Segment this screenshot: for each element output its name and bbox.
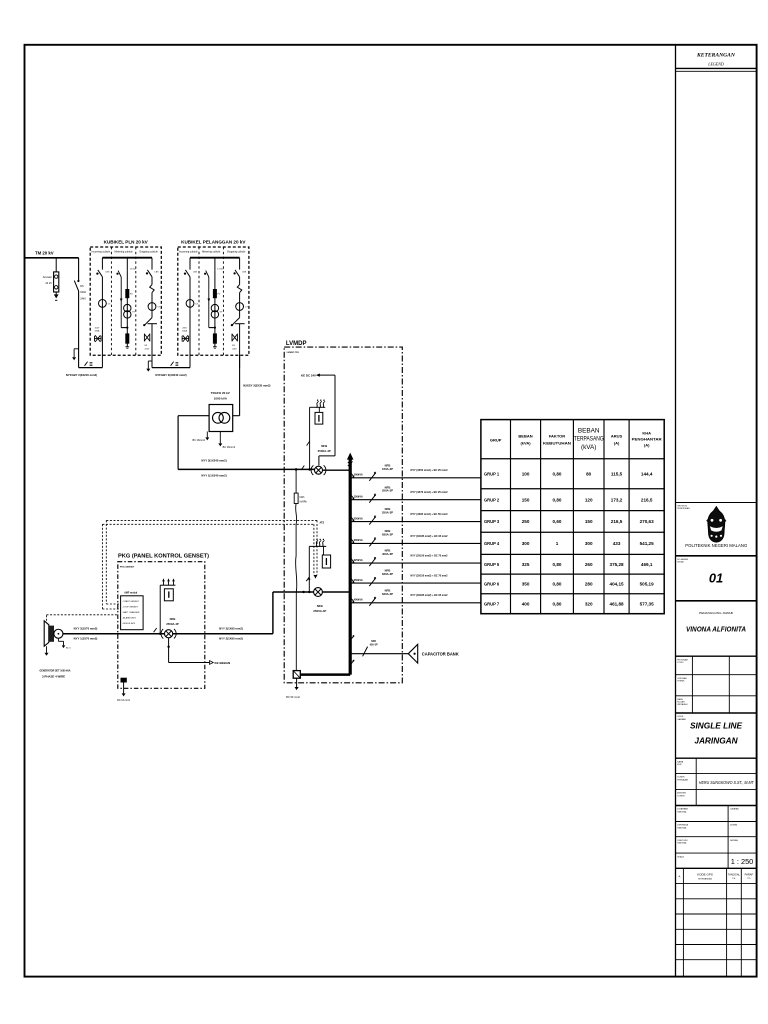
svg-text:630A-3P: 630A-3P <box>382 592 393 596</box>
svg-text:433: 433 <box>613 541 621 546</box>
svg-text:160A-3P: 160A-3P <box>382 467 393 471</box>
svg-text:kWh: kWh <box>300 496 305 499</box>
wire genset to PKG breaker <box>63 633 165 635</box>
svg-text:GRUP: GRUP <box>490 438 502 443</box>
load table: beban kelompok <box>481 420 664 614</box>
svg-text:TANGGAL: TANGGAL <box>677 810 687 813</box>
KUBIKEL PLN 20 kV: outgoing cable down <box>151 324 153 368</box>
svg-text:17,5kV: 17,5kV <box>217 269 224 271</box>
breaker NFB GRUP 3 <box>369 517 375 525</box>
svg-text:DIPERIKSA: DIPERIKSA <box>677 824 688 827</box>
svg-text:NYY 2(1X95 mm2): NYY 2(1X95 mm2) <box>219 627 243 631</box>
svg-text:CAPACITOR BANK: CAPACITOR BANK <box>422 651 459 656</box>
svg-text:150: 150 <box>585 519 593 524</box>
wire TM bus horizontal <box>25 257 79 259</box>
transformer ground 2 <box>219 432 221 444</box>
svg-text:1 : 250: 1 : 250 <box>731 857 754 866</box>
KUBIKEL PLN 20 kV: outgoing disconnect <box>145 318 152 325</box>
busbar LVMDP vertical <box>349 456 352 674</box>
svg-text:Incoming cubicle: Incoming cubicle <box>91 251 110 254</box>
svg-text:GRUP 6: GRUP 6 <box>484 582 500 587</box>
svg-text:TANGGAL: TANGGAL <box>728 873 741 877</box>
svg-text:GRUP 7: GRUP 7 <box>484 601 500 606</box>
KUBIKEL PELANGGAN 20 kV: outgoing LBS switch <box>239 258 241 270</box>
svg-text:AMF modul: AMF modul <box>124 592 137 595</box>
svg-text:VINONA ALFIONITA: VINONA ALFIONITA <box>686 627 746 634</box>
svg-text:N2XSY 2(3X35 mm2): N2XSY 2(3X35 mm2) <box>243 384 270 388</box>
svg-text:LBS: LBS <box>242 272 247 274</box>
svg-text:KULIAH: KULIAH <box>677 701 685 704</box>
svg-text:0,80: 0,80 <box>553 582 562 587</box>
PKG earth bar <box>121 678 127 682</box>
svg-text:0,80: 0,80 <box>553 562 562 567</box>
KUBIKEL PELANGGAN 20 kV: outgoing cable down <box>239 324 241 368</box>
breaker NFB GRUP 7 <box>369 598 375 606</box>
wire DC control loop <box>334 375 336 456</box>
feeder GRUP 4 from busbar <box>350 542 481 544</box>
svg-text:2500A-4P: 2500A-4P <box>166 622 179 626</box>
title block: institution logo POLITEKNIK NEGERI MALANG <box>676 502 757 504</box>
feeder GRUP 3 from busbar <box>350 521 481 523</box>
svg-text:Metering cubicle: Metering cubicle <box>114 251 133 254</box>
svg-text:630A: 630A <box>95 330 100 333</box>
KUBIKEL PLN 20 kV: outgoing CT <box>148 303 156 311</box>
svg-text:GRUP 3: GRUP 3 <box>484 519 500 524</box>
busbar bottom link and NGR <box>300 673 350 676</box>
ground at junction 2 <box>148 360 152 362</box>
svg-text:PENGHANTAR: PENGHANTAR <box>632 437 662 442</box>
svg-text:ATS: ATS <box>320 522 325 525</box>
svg-text:404,15: 404,15 <box>610 582 624 587</box>
svg-text:Outgoing cubicle: Outgoing cubicle <box>227 251 246 254</box>
svg-text:PENDIDIKAN: PENDIDIKAN <box>677 507 690 510</box>
KUBIKEL PELANGGAN 20 kV: 20kV busbar <box>190 257 240 259</box>
ground at TM junction <box>74 348 79 350</box>
svg-text:(A): (A) <box>644 443 650 448</box>
feeder GRUP 7 from busbar <box>350 602 481 604</box>
svg-text:505,19: 505,19 <box>640 582 654 587</box>
svg-text:0,80: 0,80 <box>553 497 562 502</box>
svg-text:KE BEBAN: KE BEBAN <box>215 661 231 665</box>
svg-text:0,80: 0,80 <box>553 601 562 606</box>
svg-text:325kVA: 325kVA <box>354 558 363 562</box>
instrument box genset <box>323 546 325 555</box>
svg-text:24kV: 24kV <box>80 298 86 301</box>
svg-text:- ALARM UNIT: - ALARM UNIT <box>122 616 136 619</box>
svg-text:LBS: LBS <box>106 271 111 273</box>
svg-text:2500A-4P: 2500A-4P <box>318 449 331 453</box>
svg-text:Outgoing cubicle: Outgoing cubicle <box>139 251 158 254</box>
genset engine ground <box>46 646 48 653</box>
KUBIKEL PELANGGAN 20 kV: incoming LBS switch <box>189 258 191 270</box>
svg-text:KETERANGAN: KETERANGAN <box>696 53 736 59</box>
disconnect switch DS1 630A <box>77 280 79 282</box>
capacitor bank symbol <box>408 644 417 663</box>
fuse set DC 3x <box>317 401 319 407</box>
svg-text:144,4: 144,4 <box>641 471 653 476</box>
svg-text:250kVA: 250kVA <box>354 516 363 520</box>
svg-text:Metering cubicle: Metering cubicle <box>202 251 221 254</box>
KUBIKEL PLN 20 kV: incoming CT <box>99 300 107 308</box>
ground LVMDP neutral <box>296 678 298 687</box>
svg-text:STUDI: STUDI <box>677 662 683 664</box>
svg-text:BEBAN: BEBAN <box>578 428 600 435</box>
svg-text:461,88: 461,88 <box>610 601 624 606</box>
svg-text:NYY (3X150 mm2) + BC 70 mm2: NYY (3X150 mm2) + BC 70 mm2 <box>411 574 448 578</box>
wire TM drop <box>78 258 80 281</box>
arrester LA1 24kV <box>55 258 57 272</box>
svg-text:150kVA: 150kVA <box>354 494 363 498</box>
svg-text:115,5: 115,5 <box>611 471 623 476</box>
svg-text:KETERANGAN: KETERANGAN <box>698 878 712 881</box>
svg-text:280: 280 <box>585 582 593 587</box>
svg-text:DISETUJUI: DISETUJUI <box>677 840 688 842</box>
wire genset riser into LVMDP <box>272 592 274 634</box>
svg-text:FU: FU <box>130 294 133 296</box>
svg-text:PARAF: PARAF <box>745 873 754 877</box>
svg-text:FILE: FILE <box>677 764 682 766</box>
svg-text:63A-3P: 63A-3P <box>370 644 378 647</box>
title block: file/name rows <box>695 758 697 805</box>
svg-text:20kV: 20kV <box>232 348 237 350</box>
svg-text:POLITEKNIK NEGERI MALANG: POLITEKNIK NEGERI MALANG <box>685 543 747 548</box>
feeder GRUP 1 from busbar <box>350 477 481 479</box>
svg-text:GRUP 1: GRUP 1 <box>484 471 500 476</box>
svg-text:325: 325 <box>522 562 530 567</box>
svg-text:BC 16mm2: BC 16mm2 <box>223 446 236 449</box>
svg-text:300kVA: 300kVA <box>354 538 363 542</box>
svg-text:300: 300 <box>522 541 530 546</box>
svg-text:TGL: TGL <box>732 878 736 880</box>
svg-text:ASISTEN: ASISTEN <box>677 792 686 795</box>
KUBIKEL PELANGGAN 20 kV: metering bypass switch <box>204 273 206 275</box>
svg-text:GRUP 5: GRUP 5 <box>484 562 500 567</box>
svg-text:NYY (3X150 mm2) + BC 70 mm2: NYY (3X150 mm2) + BC 70 mm2 <box>411 554 448 558</box>
svg-text:DIGAMBAR: DIGAMBAR <box>677 808 688 811</box>
title block: revision table <box>676 883 757 885</box>
wire trafo LV to LVMDP <box>178 415 209 417</box>
KUBIKEL PELANGGAN 20 kV: outgoing earthing switch <box>232 334 237 341</box>
svg-text:300: 300 <box>585 541 593 546</box>
svg-text:216,5: 216,5 <box>611 519 623 524</box>
breaker NFB GRUP 6 <box>369 579 375 587</box>
svg-text:20kV: 20kV <box>145 348 150 350</box>
transformer ground 1 <box>206 432 208 438</box>
svg-text:JURUSAN: JURUSAN <box>677 677 687 680</box>
svg-text:250: 250 <box>522 519 530 524</box>
svg-text:17,5kV: 17,5kV <box>130 269 137 271</box>
svg-text:20kV: 20kV <box>182 328 187 330</box>
svg-text:KEBUTUHAN: KEBUTUHAN <box>543 441 571 446</box>
svg-text:KHA: KHA <box>642 431 651 436</box>
svg-text:400kVA: 400kVA <box>354 598 363 602</box>
svg-text:100: 100 <box>522 471 530 476</box>
svg-text:NFB: NFB <box>321 444 327 448</box>
svg-text:630A: 630A <box>182 330 187 333</box>
genset control dashed wire <box>46 615 48 621</box>
svg-text:PENGAJAR: PENGAJAR <box>677 778 688 781</box>
svg-text:kVARh: kVARh <box>300 500 308 503</box>
svg-text:KELAS: KELAS <box>677 561 684 564</box>
svg-text:DOSEN: DOSEN <box>677 795 685 797</box>
svg-text:TEKNIK: TEKNIK <box>677 681 685 683</box>
svg-text:NAMA: NAMA <box>677 760 683 763</box>
svg-text:A: A <box>678 875 680 879</box>
KUBIKEL PLN 20 kV: metering fuse FU1 <box>126 270 128 289</box>
wire PKG breaker to LVMDP <box>173 633 273 635</box>
svg-text:PKG-GENSET: PKG-GENSET <box>120 567 135 569</box>
breaker CB2 genset NFB 2500A-4P <box>314 588 323 597</box>
svg-text:630A: 630A <box>80 291 86 294</box>
KUBIKEL PLN 20 kV: voltage transformer VT <box>126 298 128 328</box>
svg-text:CATATAN: CATATAN <box>730 808 739 811</box>
title block: scale rows with 1:250 <box>727 806 729 869</box>
svg-text:(kVA): (kVA) <box>581 444 597 451</box>
svg-text:PROGRAM: PROGRAM <box>677 658 688 661</box>
wire relay to genset line <box>159 585 161 634</box>
svg-text:541,25: 541,25 <box>640 541 654 546</box>
svg-text:DS: DS <box>80 285 84 288</box>
svg-text:01: 01 <box>709 571 723 586</box>
wire DC supply branch <box>308 468 311 471</box>
svg-text:(A): (A) <box>614 441 620 446</box>
svg-text:BC 16mm2: BC 16mm2 <box>192 439 205 442</box>
svg-text:400: 400 <box>522 601 530 606</box>
genset alternator ground <box>57 638 59 641</box>
svg-text:NFB: NFB <box>371 641 376 643</box>
svg-text:173,2: 173,2 <box>611 497 623 502</box>
svg-text:INSTALASI: INSTALASI <box>677 703 688 706</box>
KUBIKEL PLN 20 kV: metering lower fuse and earth <box>126 328 128 334</box>
svg-text:630A-3P: 630A-3P <box>382 532 393 536</box>
svg-text:SATUAN: SATUAN <box>730 839 739 842</box>
svg-text:20kV: 20kV <box>95 328 100 330</box>
title block: KETERANGAN legend header <box>676 67 757 69</box>
svg-text:260: 260 <box>585 562 593 567</box>
svg-text:KODE GPS: KODE GPS <box>697 873 713 877</box>
feeder GRUP 6 from busbar <box>350 582 481 584</box>
generator set G1 1000kVA <box>44 621 49 646</box>
kWh kVARh meter <box>295 469 297 493</box>
KUBIKEL PELANGGAN 20 kV: outgoing CT <box>236 303 244 311</box>
feeder capacitor bank <box>350 636 354 641</box>
KUBIKEL PLN 20 kV: outgoing load break zigzag <box>151 277 153 285</box>
wire KE BEBAN branch <box>168 638 170 663</box>
svg-text:TANGGAL: TANGGAL <box>677 842 687 845</box>
svg-text:- MODUL ATS: - MODUL ATS <box>122 622 136 625</box>
breaker NFB GRUP 2 <box>369 495 375 503</box>
svg-text:2500A-4P: 2500A-4P <box>313 609 326 613</box>
KUBIKEL PLN 20 kV: 20kV busbar <box>102 257 152 259</box>
KUBIKEL PLN 20 kV: metering tap <box>126 258 128 271</box>
svg-text:NFB: NFB <box>170 617 176 621</box>
fuse set genset VT branch <box>308 546 310 592</box>
KUBIKEL PLN 20 kV: incoming earthing switch <box>95 338 102 340</box>
wire breaker to busbar <box>323 469 351 471</box>
svg-text:630A-3P: 630A-3P <box>382 572 393 576</box>
svg-text:LEGEND: LEGEND <box>707 61 724 66</box>
KUBIKEL PELANGGAN 20 kV: metering fuse FU1 <box>214 270 216 289</box>
svg-text:NYY (3X70 mm2) + BC 25 mm2: NYY (3X70 mm2) + BC 25 mm2 <box>411 490 448 494</box>
svg-text:350: 350 <box>522 582 530 587</box>
svg-text:TM 20 kV: TM 20 kV <box>35 251 54 256</box>
svg-text:LVMDP-TR1: LVMDP-TR1 <box>287 352 300 354</box>
svg-text:120: 120 <box>585 497 593 502</box>
svg-text:216,5: 216,5 <box>641 497 653 502</box>
svg-text:- BATT CHARGER: - BATT CHARGER <box>122 611 140 614</box>
svg-text:NFB: NFB <box>317 604 323 608</box>
svg-text:NYY (3X50 mm2) + BC 25 mm2: NYY (3X50 mm2) + BC 25 mm2 <box>411 468 448 472</box>
svg-text:TANGGAL: TANGGAL <box>677 826 687 829</box>
KUBIKEL PELANGGAN 20 kV: outgoing load break zigzag <box>239 277 241 285</box>
svg-text:NYY (3X185 mm2) + BC 95 mm2: NYY (3X185 mm2) + BC 95 mm2 <box>411 593 448 597</box>
KUBIKEL PELANGGAN 20 kV: metering tap <box>214 258 216 271</box>
svg-text:GRUP 4: GRUP 4 <box>484 541 500 546</box>
svg-text:DOSEN: DOSEN <box>677 777 685 779</box>
svg-text:Incoming cubicle: Incoming cubicle <box>179 251 198 254</box>
feeder GRUP 5 from busbar <box>350 562 481 564</box>
svg-text:350kVA: 350kVA <box>354 578 363 582</box>
svg-text:FAKTOR: FAKTOR <box>549 434 565 439</box>
svg-text:KUBIKEL PELANGGAN 20 kV: KUBIKEL PELANGGAN 20 kV <box>181 239 246 244</box>
svg-text:250A-3P: 250A-3P <box>382 511 393 515</box>
breaker NFB GRUP 5 <box>369 559 375 567</box>
svg-text:TRAFO 20 kV: TRAFO 20 kV <box>211 391 230 395</box>
svg-text:KUBIKEL PLN 20 kV: KUBIKEL PLN 20 kV <box>104 239 149 244</box>
svg-text:469,1: 469,1 <box>641 562 653 567</box>
svg-text:MATA: MATA <box>677 698 683 701</box>
svg-text:NYY 1(1X70 mm2): NYY 1(1X70 mm2) <box>74 636 98 640</box>
wire neutral/metering down <box>296 504 297 671</box>
svg-text:375,28: 375,28 <box>610 562 624 567</box>
svg-text:150: 150 <box>522 497 530 502</box>
KUBIKEL PELANGGAN 20 kV: metering lower fuse and earth <box>214 328 216 334</box>
KUBIKEL PELANGGAN 20 kV: incoming earthing switch <box>182 338 189 340</box>
svg-text:GENERATOR SET 1000 kVA: GENERATOR SET 1000 kVA <box>40 668 72 672</box>
relay coil with arrows <box>162 578 165 581</box>
svg-text:FU: FU <box>218 294 221 296</box>
wire kubikel PLN outgoing to kubikel pelanggan <box>152 367 190 369</box>
instrument box DC 24V <box>318 407 320 412</box>
svg-text:NYY 2(1X95 mm2): NYY 2(1X95 mm2) <box>219 636 243 640</box>
svg-text:0,80: 0,80 <box>553 471 562 476</box>
svg-text:NYY 1(1X240 mm2): NYY 1(1X240 mm2) <box>201 474 226 478</box>
svg-text:PKG (PANEL KONTROL GENSET): PKG (PANEL KONTROL GENSET) <box>118 554 209 560</box>
svg-text:NYY (3X95 mm2) + BC 50 mm2: NYY (3X95 mm2) + BC 50 mm2 <box>411 512 448 516</box>
svg-text:24 kV: 24 kV <box>45 281 52 285</box>
breaker NFB GRUP 1 <box>369 473 375 481</box>
wire junction to kubikel PLN incoming <box>79 367 103 369</box>
svg-text:TERPASANG: TERPASANG <box>574 436 604 443</box>
svg-text:(kVA): (kVA) <box>520 441 531 446</box>
svg-text:KE DC 24V: KE DC 24V <box>301 373 316 377</box>
svg-text:GAMBAR: GAMBAR <box>677 718 686 721</box>
svg-text:PENANGGUNG JAWAB: PENANGGUNG JAWAB <box>699 611 733 615</box>
svg-text:100kVA: 100kVA <box>354 473 363 477</box>
svg-text:250A-3P: 250A-3P <box>382 489 393 493</box>
svg-text:JARINGAN: JARINGAN <box>694 736 738 746</box>
svg-text:- START GENSET: - START GENSET <box>122 600 140 603</box>
title block: info rows <box>676 674 757 676</box>
svg-text:BEBAN: BEBAN <box>518 434 532 439</box>
svg-text:LBS: LBS <box>193 271 198 273</box>
KUBIKEL PELANGGAN 20 kV: voltage transformer VT <box>214 298 216 328</box>
svg-text:ARUS: ARUS <box>611 434 623 439</box>
svg-text:NO. ABSEN: NO. ABSEN <box>677 558 688 561</box>
svg-text:- STOP GENSET: - STOP GENSET <box>122 606 139 608</box>
svg-text:LBS: LBS <box>155 272 160 274</box>
KUBIKEL PLN 20 kV: incoming LBS switch <box>101 258 103 270</box>
svg-text:NYFGBY 2(3X240 mm2): NYFGBY 2(3X240 mm2) <box>155 373 186 377</box>
svg-text:1: 1 <box>556 541 559 546</box>
svg-text:DILIHAT: DILIHAT <box>730 824 738 827</box>
svg-text:270,63: 270,63 <box>640 519 654 524</box>
svg-text:NYY 3(1X240 mm2): NYY 3(1X240 mm2) <box>201 459 226 463</box>
svg-text:JUDUL: JUDUL <box>677 716 684 718</box>
svg-text:1000 kVA: 1000 kVA <box>214 397 228 401</box>
KUBIKEL PLN 20 kV: outgoing LBS switch <box>151 258 153 270</box>
KUBIKEL PELANGGAN 20 kV: outgoing disconnect <box>232 318 239 325</box>
breaker NFB GRUP 4 <box>369 539 375 547</box>
svg-text:GRUP 2: GRUP 2 <box>484 497 500 502</box>
KUBIKEL PLN 20 kV: metering bypass switch <box>116 273 118 275</box>
KUBIKEL PELANGGAN 20 kV: incoming CT <box>186 300 194 308</box>
KUBIKEL PLN 20 kV: outgoing earthing switch <box>144 334 149 341</box>
svg-text:0,60: 0,60 <box>553 519 562 524</box>
svg-text:SKALA: SKALA <box>677 855 684 858</box>
svg-text:HERU SUNGKOWO S.ST., M.MT: HERU SUNGKOWO S.ST., M.MT <box>699 780 754 785</box>
svg-text:LVMDP: LVMDP <box>286 341 307 347</box>
svg-text:400A-3P: 400A-3P <box>382 552 393 556</box>
svg-text:3 PHASE 4 WIRE: 3 PHASE 4 WIRE <box>42 675 65 679</box>
svg-text:577,35: 577,35 <box>640 601 654 606</box>
svg-text:Arrester: Arrester <box>43 275 52 279</box>
svg-text:NYY (3X185 mm2) + BC 95 mm2: NYY (3X185 mm2) + BC 95 mm2 <box>411 534 448 538</box>
svg-text:SINGLE LINE: SINGLE LINE <box>690 721 743 731</box>
svg-text:BC 50 mm2: BC 50 mm2 <box>286 695 300 699</box>
svg-text:320: 320 <box>585 601 593 606</box>
svg-text:BC 16 mm2: BC 16 mm2 <box>117 699 130 702</box>
svg-text:NYFGBY 2(3X240 mm2): NYFGBY 2(3X240 mm2) <box>66 373 97 377</box>
feeder GRUP 2 from busbar <box>350 499 481 501</box>
wire kubikel pelanggan outgoing to trafo <box>239 355 241 415</box>
control cable pair LVMDP to PKG <box>106 519 317 521</box>
svg-text:INSTITUSI: INSTITUSI <box>677 505 687 507</box>
svg-text:NYY 3(1X70 mm2): NYY 3(1X70 mm2) <box>74 627 98 631</box>
svg-text:80: 80 <box>586 471 592 476</box>
